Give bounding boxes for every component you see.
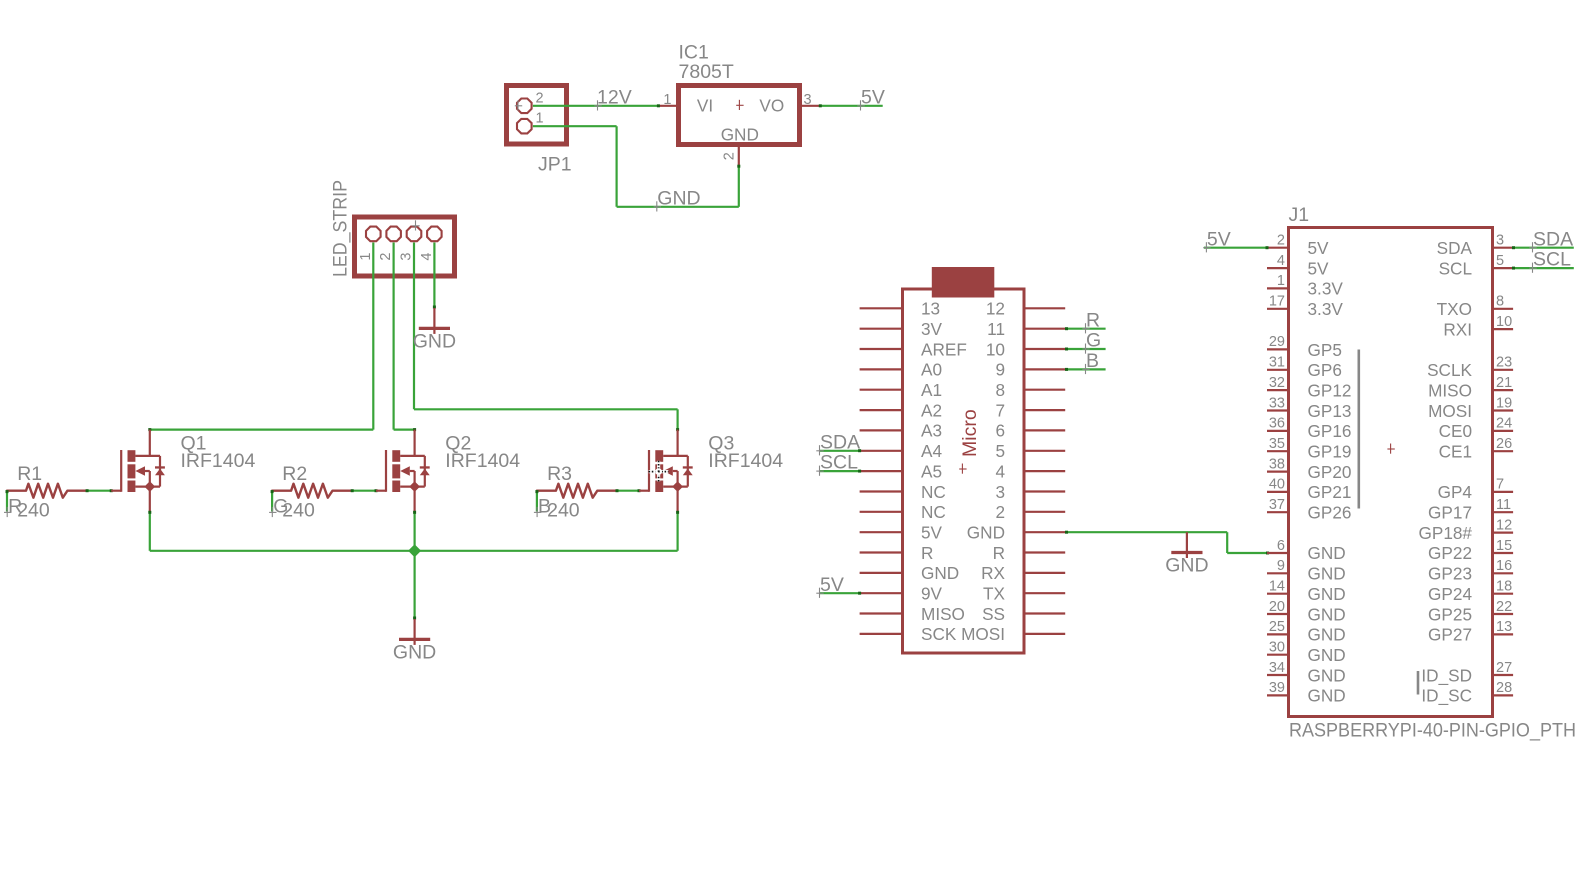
svg-text:RASPBERRYPI-40-PIN-GPIO_PTH: RASPBERRYPI-40-PIN-GPIO_PTH bbox=[1289, 720, 1576, 742]
svg-text:GP27: GP27 bbox=[1428, 625, 1472, 645]
svg-text:R2: R2 bbox=[282, 463, 307, 485]
svg-text:NC: NC bbox=[921, 482, 946, 502]
svg-text:240: 240 bbox=[282, 500, 315, 522]
svg-text:GND: GND bbox=[413, 331, 456, 353]
svg-text:240: 240 bbox=[547, 500, 580, 522]
svg-text:SCL: SCL bbox=[1533, 249, 1571, 271]
svg-text:11: 11 bbox=[1496, 497, 1511, 513]
svg-text:4: 4 bbox=[1277, 253, 1285, 269]
svg-text:IRF1404: IRF1404 bbox=[445, 450, 520, 472]
svg-text:14: 14 bbox=[1269, 579, 1285, 595]
svg-text:2: 2 bbox=[995, 502, 1005, 522]
svg-text:2: 2 bbox=[378, 253, 394, 261]
svg-text:A5: A5 bbox=[921, 461, 942, 481]
svg-text:GP24: GP24 bbox=[1428, 584, 1472, 604]
svg-text:3: 3 bbox=[399, 253, 415, 261]
svg-text:GND: GND bbox=[1308, 584, 1346, 604]
svg-text:35: 35 bbox=[1269, 436, 1285, 452]
svg-text:CE1: CE1 bbox=[1439, 442, 1472, 462]
svg-text:3: 3 bbox=[804, 92, 812, 108]
svg-text:GP19: GP19 bbox=[1308, 442, 1352, 462]
svg-text:MOSI: MOSI bbox=[961, 624, 1005, 644]
svg-text:TXO: TXO bbox=[1437, 299, 1472, 319]
svg-text:2: 2 bbox=[1277, 233, 1285, 249]
svg-text:GP12: GP12 bbox=[1308, 380, 1352, 400]
svg-text:5V: 5V bbox=[820, 574, 844, 596]
svg-text:R1: R1 bbox=[17, 463, 42, 485]
svg-text:GP22: GP22 bbox=[1428, 543, 1472, 563]
svg-text:GP26: GP26 bbox=[1308, 503, 1352, 523]
svg-text:GP4: GP4 bbox=[1438, 482, 1473, 502]
svg-text:5V: 5V bbox=[861, 86, 885, 108]
svg-text:4: 4 bbox=[419, 253, 435, 261]
svg-text:SCL: SCL bbox=[1439, 258, 1472, 278]
svg-text:2: 2 bbox=[722, 152, 738, 160]
svg-text:29: 29 bbox=[1269, 334, 1285, 350]
svg-text:5: 5 bbox=[1496, 253, 1504, 269]
svg-text:12: 12 bbox=[986, 299, 1005, 319]
svg-text:3V: 3V bbox=[921, 319, 943, 339]
svg-text:A2: A2 bbox=[921, 400, 942, 420]
svg-text:A0: A0 bbox=[921, 360, 942, 380]
svg-text:Micro: Micro bbox=[959, 409, 981, 457]
svg-text:27: 27 bbox=[1496, 660, 1512, 676]
svg-text:30: 30 bbox=[1269, 640, 1285, 656]
svg-text:GP13: GP13 bbox=[1308, 401, 1352, 421]
svg-text:GND: GND bbox=[1308, 625, 1346, 645]
svg-text:11: 11 bbox=[987, 319, 1005, 339]
svg-text:SCLK: SCLK bbox=[1427, 360, 1472, 380]
svg-text:32: 32 bbox=[1269, 375, 1285, 391]
svg-text:7805T: 7805T bbox=[679, 61, 734, 83]
svg-text:R: R bbox=[1086, 309, 1100, 331]
svg-text:TX: TX bbox=[983, 584, 1005, 604]
svg-text:34: 34 bbox=[1269, 660, 1285, 676]
svg-text:7: 7 bbox=[1496, 477, 1504, 493]
svg-text:MOSI: MOSI bbox=[1428, 401, 1472, 421]
svg-text:22: 22 bbox=[1496, 599, 1512, 615]
svg-text:16: 16 bbox=[1496, 558, 1512, 574]
svg-text:RX: RX bbox=[981, 563, 1005, 583]
svg-text:15: 15 bbox=[1496, 538, 1512, 554]
svg-text:1: 1 bbox=[536, 111, 544, 127]
svg-text:24: 24 bbox=[1496, 416, 1512, 432]
svg-text:10: 10 bbox=[986, 339, 1005, 359]
svg-text:19: 19 bbox=[1496, 395, 1512, 411]
svg-text:GND: GND bbox=[1308, 543, 1346, 563]
svg-text:GND: GND bbox=[657, 187, 700, 209]
svg-text:2: 2 bbox=[536, 91, 544, 107]
svg-text:IRF1404: IRF1404 bbox=[708, 450, 783, 472]
svg-text:5V: 5V bbox=[1207, 228, 1231, 250]
svg-text:R3: R3 bbox=[547, 463, 572, 485]
svg-text:SS: SS bbox=[982, 604, 1005, 624]
svg-text:12: 12 bbox=[1496, 517, 1512, 533]
svg-text:GND: GND bbox=[1308, 665, 1346, 685]
svg-text:SDA: SDA bbox=[1437, 238, 1473, 258]
svg-text:10: 10 bbox=[1496, 314, 1512, 330]
svg-text:GP23: GP23 bbox=[1428, 564, 1472, 584]
svg-text:GP16: GP16 bbox=[1308, 421, 1352, 441]
svg-text:MISO: MISO bbox=[1428, 380, 1472, 400]
svg-text:GND: GND bbox=[1308, 686, 1346, 706]
svg-text:5: 5 bbox=[995, 441, 1005, 461]
svg-text:6: 6 bbox=[995, 421, 1005, 441]
svg-text:CE0: CE0 bbox=[1439, 421, 1472, 441]
svg-text:38: 38 bbox=[1269, 456, 1285, 472]
svg-text:GND: GND bbox=[1165, 555, 1208, 577]
svg-text:1: 1 bbox=[1277, 273, 1285, 289]
svg-text:20: 20 bbox=[1269, 599, 1285, 615]
svg-text:GND: GND bbox=[921, 563, 959, 583]
svg-text:A1: A1 bbox=[921, 380, 942, 400]
svg-text:VI: VI bbox=[697, 96, 713, 116]
svg-text:JP1: JP1 bbox=[538, 153, 572, 175]
svg-text:1: 1 bbox=[358, 253, 374, 261]
svg-text:ID_SC: ID_SC bbox=[1421, 686, 1472, 706]
svg-text:9: 9 bbox=[995, 360, 1005, 380]
svg-text:R: R bbox=[993, 543, 1005, 563]
svg-text:21: 21 bbox=[1496, 375, 1512, 391]
svg-text:5V: 5V bbox=[1308, 238, 1330, 258]
svg-text:IRF1404: IRF1404 bbox=[181, 450, 256, 472]
svg-text:39: 39 bbox=[1269, 680, 1285, 696]
svg-text:33: 33 bbox=[1269, 395, 1285, 411]
svg-text:LED_STRIP: LED_STRIP bbox=[330, 180, 352, 277]
svg-text:4: 4 bbox=[995, 461, 1005, 481]
svg-text:SCL: SCL bbox=[820, 452, 858, 474]
svg-text:R: R bbox=[921, 543, 933, 563]
svg-text:GND: GND bbox=[967, 523, 1005, 543]
svg-text:25: 25 bbox=[1269, 619, 1285, 635]
svg-text:AREF: AREF bbox=[921, 339, 967, 359]
svg-text:GND: GND bbox=[1308, 645, 1346, 665]
svg-text:GND: GND bbox=[721, 124, 759, 144]
svg-text:3.3V: 3.3V bbox=[1308, 299, 1344, 319]
svg-text:6: 6 bbox=[1277, 538, 1285, 554]
svg-text:SCK: SCK bbox=[921, 624, 957, 644]
svg-text:28: 28 bbox=[1496, 680, 1512, 696]
svg-text:31: 31 bbox=[1269, 355, 1285, 371]
svg-text:GP6: GP6 bbox=[1308, 360, 1342, 380]
svg-text:GND: GND bbox=[393, 642, 436, 664]
svg-text:MISO: MISO bbox=[921, 604, 965, 624]
svg-text:3: 3 bbox=[995, 482, 1005, 502]
svg-text:1: 1 bbox=[663, 92, 671, 108]
svg-text:8: 8 bbox=[1496, 294, 1504, 310]
svg-text:5V: 5V bbox=[921, 523, 943, 543]
svg-text:7: 7 bbox=[995, 400, 1005, 420]
svg-text:IC1: IC1 bbox=[679, 41, 709, 63]
svg-text:9: 9 bbox=[1277, 558, 1285, 574]
svg-text:GP17: GP17 bbox=[1428, 503, 1472, 523]
svg-text:18: 18 bbox=[1496, 579, 1512, 595]
svg-text:40: 40 bbox=[1269, 477, 1285, 493]
svg-text:GP20: GP20 bbox=[1308, 462, 1352, 482]
svg-text:A3: A3 bbox=[921, 421, 942, 441]
svg-text:G: G bbox=[1086, 330, 1101, 352]
svg-text:A4: A4 bbox=[921, 441, 942, 461]
svg-text:12V: 12V bbox=[597, 86, 632, 108]
svg-text:GP5: GP5 bbox=[1308, 340, 1342, 360]
svg-text:B: B bbox=[1086, 350, 1099, 372]
svg-text:5V: 5V bbox=[1308, 258, 1330, 278]
svg-text:9V: 9V bbox=[921, 584, 943, 604]
svg-text:GP21: GP21 bbox=[1308, 482, 1352, 502]
svg-text:SDA: SDA bbox=[1533, 228, 1573, 250]
svg-text:RXI: RXI bbox=[1443, 319, 1472, 339]
svg-text:J1: J1 bbox=[1289, 204, 1310, 226]
svg-text:SDA: SDA bbox=[820, 431, 860, 453]
svg-text:GP25: GP25 bbox=[1428, 604, 1472, 624]
svg-text:GP18#: GP18# bbox=[1418, 523, 1472, 543]
svg-text:36: 36 bbox=[1269, 416, 1285, 432]
svg-text:ID_SD: ID_SD bbox=[1421, 665, 1472, 685]
svg-text:13: 13 bbox=[921, 299, 940, 319]
svg-text:240: 240 bbox=[17, 500, 50, 522]
svg-text:17: 17 bbox=[1269, 294, 1285, 310]
svg-text:37: 37 bbox=[1269, 497, 1285, 513]
svg-text:26: 26 bbox=[1496, 436, 1512, 452]
svg-text:8: 8 bbox=[995, 380, 1005, 400]
svg-text:NC: NC bbox=[921, 502, 946, 522]
svg-text:VO: VO bbox=[759, 96, 784, 116]
svg-text:3: 3 bbox=[1496, 233, 1504, 249]
svg-text:GND: GND bbox=[1308, 564, 1346, 584]
svg-text:23: 23 bbox=[1496, 355, 1512, 371]
svg-text:GND: GND bbox=[1308, 604, 1346, 624]
svg-text:3.3V: 3.3V bbox=[1308, 279, 1344, 299]
svg-text:13: 13 bbox=[1496, 619, 1512, 635]
